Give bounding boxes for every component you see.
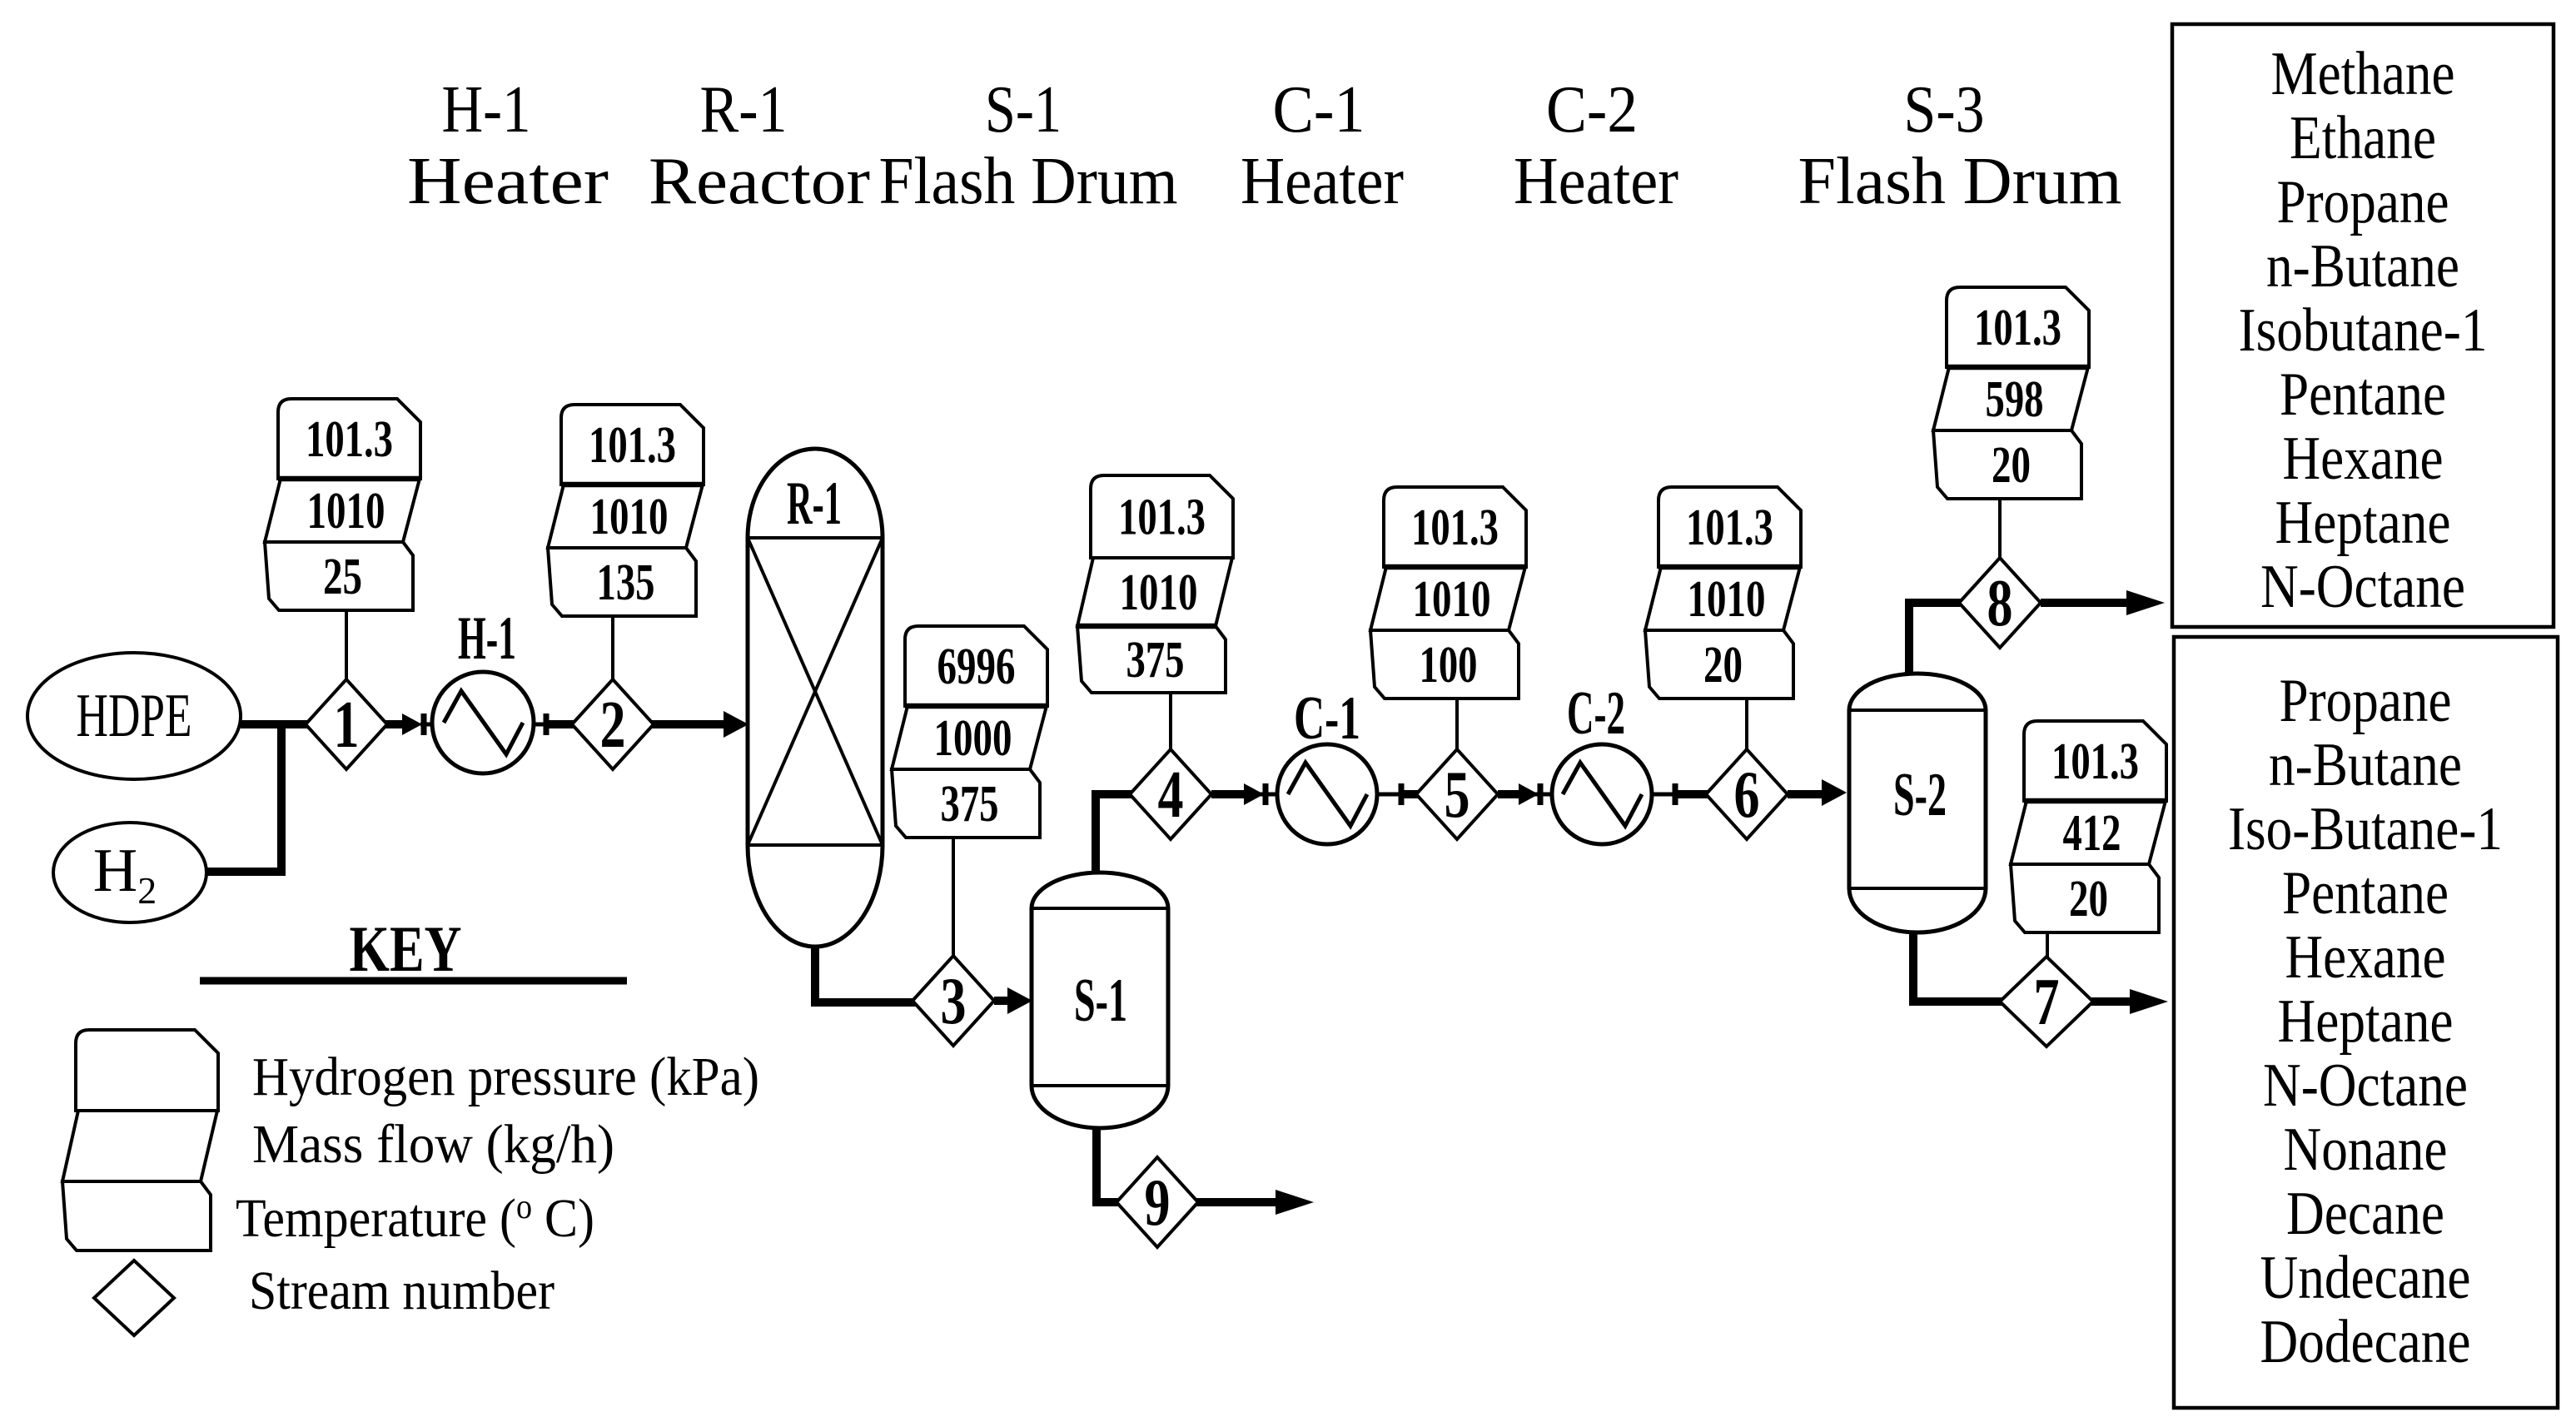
svg-text:N-Octane: N-Octane	[2260, 553, 2465, 621]
svg-text:101.3: 101.3	[306, 411, 393, 468]
svg-text:Hydrogen pressure (kPa): Hydrogen pressure (kPa)	[252, 1047, 759, 1107]
svg-text:5: 5	[1445, 758, 1470, 832]
svg-text:n-Butane: n-Butane	[2266, 232, 2459, 301]
svg-text:25: 25	[323, 549, 362, 605]
data box stream 1	[265, 399, 420, 610]
key stream diamond	[94, 1260, 174, 1335]
svg-text:S-1: S-1	[1074, 967, 1127, 1035]
svg-text:20: 20	[1703, 637, 1743, 694]
svg-text:Undecane: Undecane	[2260, 1244, 2471, 1312]
product list box (liquid, stream 7)	[2174, 637, 2558, 1408]
svg-text:Propane: Propane	[2280, 667, 2452, 735]
data box stream 2	[548, 405, 704, 616]
svg-text:1010: 1010	[1688, 571, 1766, 628]
data box stream 4	[1077, 475, 1233, 693]
svg-text:3: 3	[941, 965, 967, 1038]
data box stream 5	[1370, 487, 1526, 699]
wire diamond 7 to product box	[2091, 997, 2133, 1006]
svg-text:9: 9	[1145, 1166, 1171, 1240]
wire diamond 2 to reactor R-1	[652, 720, 731, 728]
svg-text:C-2: C-2	[1567, 679, 1625, 748]
svg-text:Mass flow (kg/h): Mass flow (kg/h)	[252, 1114, 614, 1175]
svg-text:8: 8	[1987, 567, 2013, 640]
svg-text:H-1: H-1	[458, 604, 516, 673]
svg-text:C-1: C-1	[1294, 684, 1360, 753]
svg-text:S-3: S-3	[1904, 73, 1985, 147]
connector stream 3	[952, 838, 955, 957]
svg-text:Reactor: Reactor	[649, 145, 870, 218]
data box stream 3	[892, 626, 1047, 838]
svg-text:Isobutane-1: Isobutane-1	[2239, 296, 2488, 365]
svg-text:R-1: R-1	[700, 73, 788, 147]
connector stream 8	[1998, 499, 2002, 559]
svg-text:6996: 6996	[937, 639, 1016, 695]
stream diamond 1	[306, 679, 387, 769]
svg-text:Flash Drum: Flash Drum	[879, 145, 1178, 218]
svg-text:100: 100	[1420, 637, 1478, 694]
svg-text:N-Octane: N-Octane	[2263, 1052, 2468, 1120]
wire reactor R-1 bottom to diamond 3	[815, 941, 916, 1002]
svg-text:375: 375	[1126, 632, 1185, 689]
svg-text:Hexane: Hexane	[2285, 923, 2446, 992]
svg-text:Heater: Heater	[1241, 145, 1404, 218]
wire heater C-2 to diamond 6	[1651, 793, 1673, 797]
stream diamond 6	[1706, 749, 1788, 839]
svg-text:Heptane: Heptane	[2278, 987, 2454, 1056]
svg-text:135: 135	[597, 554, 655, 611]
svg-text:KEY: KEY	[350, 912, 462, 985]
svg-text:6: 6	[1734, 758, 1760, 832]
svg-text:H-1: H-1	[442, 73, 531, 147]
svg-text:1010: 1010	[590, 489, 669, 545]
product list box (vapour, stream 8)	[2172, 24, 2554, 627]
key labels	[236, 1047, 759, 1321]
label S-3 Flash Drum	[1798, 73, 2122, 218]
connector stream 5	[1455, 699, 1459, 751]
key sample data box	[62, 1030, 218, 1250]
stream diamond 2	[572, 679, 654, 769]
svg-text:HDPE: HDPE	[77, 682, 192, 750]
svg-text:R-1: R-1	[787, 470, 842, 538]
data box stream 6	[1645, 487, 1801, 699]
svg-text:1: 1	[334, 689, 360, 762]
svg-text:C-2: C-2	[1546, 73, 1638, 147]
wire S-2 top to diamond 8	[1909, 603, 1962, 676]
wire diamond 9 outlet	[1196, 1198, 1279, 1206]
wire diamond 4 to heater C-1	[1211, 790, 1246, 798]
label C-1 Heater	[1241, 73, 1404, 218]
wire S-2 bottom to diamond 7	[1913, 928, 2008, 1002]
svg-text:101.3: 101.3	[1118, 490, 1206, 546]
key title	[200, 912, 627, 985]
svg-text:Heptane: Heptane	[2275, 489, 2451, 557]
svg-text:412: 412	[2063, 805, 2121, 862]
svg-text:Heater: Heater	[1514, 145, 1678, 218]
label S-1 Flash Drum	[879, 73, 1178, 218]
svg-text:2: 2	[600, 689, 626, 762]
svg-text:101.3: 101.3	[1411, 500, 1499, 556]
source HDPE	[27, 653, 241, 779]
svg-text:Methane: Methane	[2271, 40, 2455, 108]
connector stream 2	[611, 616, 614, 681]
svg-text:Temperature (o C): Temperature (o C)	[236, 1188, 594, 1249]
svg-text:7: 7	[2034, 966, 2060, 1039]
svg-text:101.3: 101.3	[1686, 500, 1773, 556]
data box stream 8	[1933, 287, 2089, 499]
source H2	[53, 823, 206, 922]
svg-text:n-Butane: n-Butane	[2269, 731, 2462, 799]
stream diamond 3	[913, 956, 994, 1046]
reactor R-1	[748, 449, 883, 947]
wire diamond 1 to heater H-1	[385, 720, 405, 728]
stream diamond 5	[1416, 749, 1498, 839]
svg-text:Hexane: Hexane	[2283, 425, 2444, 493]
wire diamond 6 to S-2	[1788, 790, 1828, 798]
svg-text:Pentane: Pentane	[2282, 859, 2449, 927]
svg-text:101.3: 101.3	[589, 417, 676, 474]
svg-text:Iso-Butane-1: Iso-Butane-1	[2228, 795, 2503, 863]
wire S-1 bottom to diamond 9	[1097, 1124, 1122, 1202]
svg-text:1000: 1000	[934, 710, 1012, 767]
svg-text:Pentane: Pentane	[2280, 360, 2446, 429]
heater H-1	[432, 672, 534, 773]
wire heater C-1 to diamond 5	[1376, 793, 1400, 797]
label H-1 Heater	[407, 73, 609, 218]
svg-text:101.3: 101.3	[2051, 733, 2139, 790]
svg-text:S-2: S-2	[1893, 761, 1947, 829]
label C-2 Heater	[1514, 73, 1678, 218]
flash drum S-1	[1032, 873, 1168, 1128]
svg-text:Flash Drum: Flash Drum	[1798, 145, 2122, 218]
heater C-1	[1277, 744, 1377, 844]
connector stream 6	[1745, 699, 1748, 751]
wire diamond 8 to product box	[2041, 599, 2131, 607]
data box stream 7	[2011, 721, 2166, 932]
svg-text:375: 375	[941, 776, 999, 833]
stream diamond 8	[1959, 558, 2041, 648]
svg-text:1010: 1010	[307, 483, 385, 539]
heater C-2	[1552, 744, 1652, 844]
wire diamond 3 to S-1	[994, 997, 1014, 1005]
wire H2 to junction	[206, 720, 281, 872]
wire S-1 top to diamond 4	[1096, 794, 1132, 876]
svg-text:Decane: Decane	[2286, 1180, 2444, 1248]
wire HDPE to junction	[241, 720, 286, 728]
svg-text:Heater: Heater	[407, 145, 609, 218]
svg-text:20: 20	[1992, 437, 2031, 494]
svg-text:C-1: C-1	[1273, 73, 1365, 147]
wire diamond 5 to heater C-2	[1498, 790, 1521, 798]
svg-text:Propane: Propane	[2277, 168, 2449, 236]
stream diamond 9	[1116, 1157, 1198, 1247]
connector stream 4	[1169, 686, 1172, 751]
connector stream 1	[345, 610, 348, 681]
svg-text:4: 4	[1158, 758, 1184, 832]
stream diamond 7	[2000, 957, 2093, 1047]
stream diamond 4	[1130, 749, 1211, 839]
flash drum S-2	[1849, 674, 1986, 932]
svg-text:Ethane: Ethane	[2290, 104, 2436, 172]
svg-text:20: 20	[2069, 871, 2108, 927]
label R-1 Reactor	[649, 73, 870, 218]
svg-text:S-1: S-1	[985, 73, 1062, 147]
svg-text:598: 598	[1986, 371, 2044, 428]
svg-text:Nonane: Nonane	[2284, 1116, 2448, 1184]
wire junction to diamond 1	[277, 720, 308, 728]
svg-text:1010: 1010	[1413, 571, 1491, 628]
svg-text:101.3: 101.3	[1974, 300, 2061, 356]
svg-text:Stream number: Stream number	[249, 1260, 554, 1321]
svg-text:1010: 1010	[1120, 564, 1198, 621]
connector stream 7	[2046, 934, 2049, 958]
svg-text:Dodecane: Dodecane	[2260, 1308, 2471, 1376]
wire heater H-1 to diamond 2	[534, 723, 545, 727]
